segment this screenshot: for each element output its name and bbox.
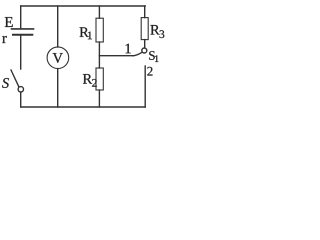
label R2 — [83, 74, 97, 87]
label r — [2, 36, 7, 43]
switch S1 blade to contact 1 — [133, 52, 142, 56]
wire between R1 and R2 — [98, 42, 100, 68]
wire R3 to switch S1 — [144, 40, 146, 48]
wire left lower — [20, 92, 22, 107]
wire left middle — [20, 35, 22, 69]
wire voltmeter branch lower — [57, 69, 59, 107]
resistor R3 box — [141, 18, 148, 40]
label S — [2, 78, 9, 88]
wire R1 branch upper — [98, 6, 100, 18]
wire contact 2 to bottom — [144, 66, 146, 107]
label E — [5, 17, 13, 27]
resistor R1 box — [96, 18, 103, 42]
switch S blade — [11, 70, 19, 87]
label V — [53, 53, 63, 63]
wire junction to contact 1 — [99, 55, 133, 57]
battery E r top plate — [12, 28, 34, 30]
switch S1 pivot circle — [142, 48, 147, 53]
label R3 — [150, 25, 164, 38]
wire left upper — [20, 6, 22, 29]
voltmeter V circle — [47, 47, 69, 69]
label S1 — [149, 51, 158, 62]
wire voltmeter branch upper — [57, 6, 59, 47]
battery E r bottom plate — [13, 34, 32, 36]
wire top — [21, 5, 146, 7]
wire bottom — [21, 106, 146, 108]
resistor R2 box — [96, 68, 103, 90]
label contact 2 — [147, 67, 152, 76]
label R1 — [80, 27, 92, 39]
switch S pivot circle — [18, 87, 23, 92]
wire R2 branch lower — [98, 90, 100, 107]
wire R3 branch upper — [144, 6, 146, 18]
label contact 1 — [126, 44, 131, 54]
